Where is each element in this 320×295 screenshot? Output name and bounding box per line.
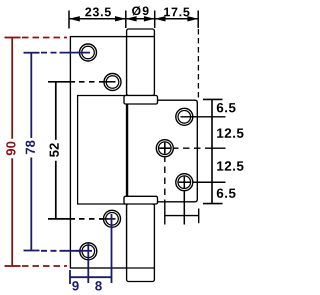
dimension 78 (navy, left) [24,53,93,251]
top barrel [127,29,155,96]
screw hole 5 (bottom left) [76,243,97,283]
screw hole 4 (bottom middle-left) [100,210,121,283]
arrowheads top dimension [69,16,198,21]
label 9 [72,281,78,290]
label 12.5 upper [217,128,243,137]
top knuckle collar [124,96,158,105]
screw hole 1 (top left) [77,44,97,61]
screw hole 2 [102,74,121,91]
dimension 90 (red, left) [5,38,68,267]
right leaf plate [128,100,198,202]
middle knuckle edge [126,104,128,196]
extension line (dashed) from 17.5 to right leaf [197,29,199,98]
bottom knuckle collar [124,196,158,204]
dimension 23.5 / Ø9 / 17.5 top dimension line [69,11,198,29]
screw hole A (right top) [176,108,196,125]
screw hole C (right bottom) [176,174,193,191]
label 6.5 bottom [217,188,236,197]
bottom barrel [127,204,155,282]
label 52 [49,143,58,157]
label 8 [95,281,102,290]
hole C extension lines [179,181,226,183]
right dimension line 6.5/12.5/12.5/6.5 [203,99,223,203]
label 6.5 top [217,103,236,112]
label 23.5 [85,8,111,17]
label 78 [26,140,35,154]
label Ø9 [132,6,149,15]
screw hole B (right middle) [156,140,173,157]
left leaf plate [70,37,126,268]
label 12.5 lower [217,161,243,170]
label 90 [6,142,15,156]
left leaf middle recess band [78,96,126,205]
label 17.5 [164,8,189,17]
dimension 52 (black, left) [48,82,116,219]
bottom dimension 9 / 8 (navy) [70,270,112,284]
bottom right unlabeled dimension [165,209,199,224]
hole B centermark and extension lines [159,143,225,225]
hole A extension line [180,116,225,118]
